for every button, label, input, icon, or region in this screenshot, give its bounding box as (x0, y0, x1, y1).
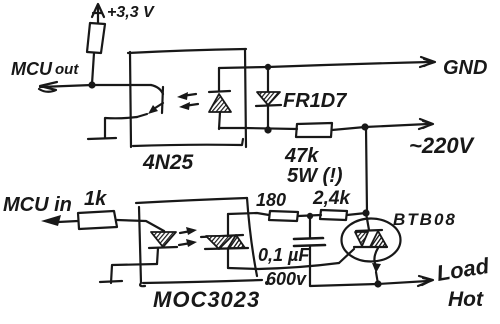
wire 47k to 220V (332, 124, 428, 130)
svg-text:MCU in: MCU in (3, 194, 72, 216)
svg-text:47k: 47k (284, 145, 319, 167)
resistor R3 1k (78, 211, 117, 229)
resistor R1 pull-up (87, 23, 105, 53)
svg-text:1k: 1k (84, 188, 107, 210)
svg-text:BTB08: BTB08 (393, 210, 457, 229)
U1 LED (209, 68, 231, 129)
svg-text:FR1D7: FR1D7 (283, 90, 347, 112)
svg-text:Hot: Hot (448, 288, 484, 311)
wire node F to Q1 MT2 (366, 213, 369, 230)
svg-text:MCU: MCU (11, 59, 53, 79)
op-to U1 4N25 box (128, 49, 246, 147)
wire C1 to load rail (310, 246, 377, 286)
U2 light arrow 1 (180, 227, 197, 235)
capacitor C1 (294, 238, 325, 246)
GND arrow (420, 57, 435, 67)
+3.3V supply arrow (92, 4, 104, 23)
U1 light arrow 1 (177, 92, 196, 100)
node C: FR1D7 / 220V wire (264, 126, 271, 133)
svg-text:+3,3 V: +3,3 V (107, 4, 155, 21)
svg-text:0,1 µF: 0,1 µF (258, 245, 310, 265)
node E: snubber cap junction (307, 213, 313, 219)
MCU in arrow (41, 215, 78, 226)
Q1 gate lead (339, 249, 354, 263)
wire U1 emitter (105, 117, 137, 138)
Q1 MT1 lead with arrow (372, 248, 381, 284)
wire load rail (378, 281, 428, 284)
U2 LED (149, 232, 177, 264)
wire MCU out to U1 (40, 85, 151, 87)
U1 phototransistor (137, 85, 163, 117)
resistor R4 180 (269, 211, 298, 221)
U1 emitter stub bar (88, 138, 116, 139)
node G: load rail junction (374, 280, 381, 287)
node B: cathode / FR1D7 (265, 64, 271, 70)
resistor R2 47k (296, 123, 332, 137)
wire node E to capacitor (309, 216, 311, 238)
node A: R1 / MCU out junction (88, 81, 95, 88)
svg-text:4N25: 4N25 (142, 151, 194, 174)
wire 180 to 2.4k (298, 215, 321, 216)
svg-text:600v: 600v (266, 269, 307, 289)
U1 light arrow 2 (179, 102, 198, 110)
U2 triac symbol (201, 214, 248, 268)
wire 1k to U2 LED (117, 220, 164, 231)
wire U1 anode to 47k (219, 128, 297, 129)
U2 return stub bar (100, 281, 122, 282)
resistor R5 2,4k (320, 210, 347, 220)
svg-text:out: out (55, 61, 79, 78)
node F: triac MT2 / snubber (362, 209, 369, 216)
Q1 triac symbol (354, 230, 387, 247)
wire U1 cathode to GND (219, 62, 430, 68)
~220V arrow (419, 119, 433, 129)
wire R1 to node (92, 53, 94, 84)
svg-text:~220V: ~220V (409, 133, 476, 158)
wire gate to U2 pin4 (228, 263, 339, 269)
svg-text:MOC3023: MOC3023 (153, 287, 260, 312)
load arrow (418, 276, 433, 286)
optotriac U2 MOC3023 box (136, 198, 269, 286)
svg-text:5W (!): 5W (!) (287, 165, 343, 187)
wire node D down to triac (366, 127, 367, 213)
wire 2.4k to node F (347, 213, 366, 215)
wire U2 LED return (111, 264, 157, 283)
triac Q1 BTB08 envelope (342, 219, 401, 262)
svg-text:2,4k: 2,4k (312, 188, 351, 209)
U2 light arrow 2 (179, 239, 197, 247)
wire U2 pin6 to 180 (228, 213, 269, 215)
MCU out arrow (39, 82, 57, 92)
node D: 220V / snubber drop (361, 123, 368, 130)
svg-text:GND: GND (443, 57, 487, 79)
svg-text:180: 180 (256, 190, 286, 210)
diode D1 FR1D7 (256, 67, 281, 130)
